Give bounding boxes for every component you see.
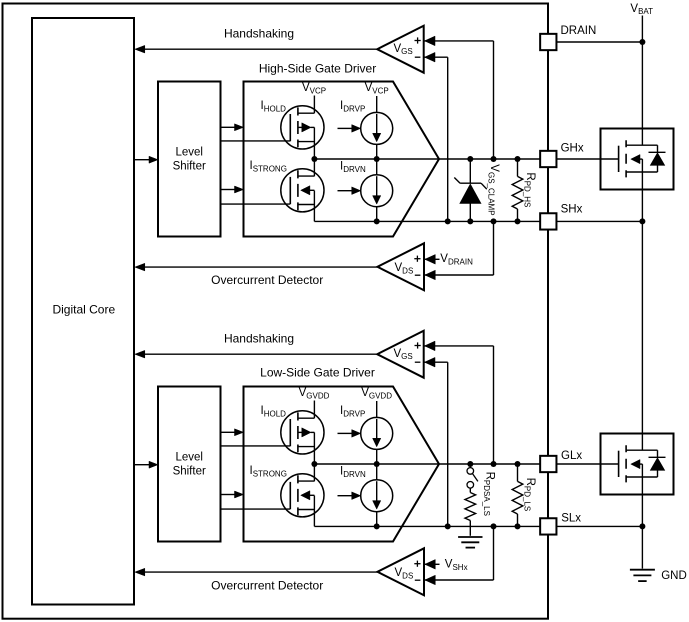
svg-text:Handshaking: Handshaking — [224, 27, 294, 41]
svg-text:Overcurrent Detector: Overcurrent Detector — [211, 273, 323, 287]
svg-text:GND: GND — [661, 570, 687, 582]
svg-text:GLx: GLx — [561, 450, 582, 462]
svg-text:Handshaking: Handshaking — [224, 332, 294, 346]
svg-text:Level: Level — [175, 146, 203, 158]
svg-text:Overcurrent Detector: Overcurrent Detector — [211, 578, 323, 592]
svg-text:Shifter: Shifter — [173, 160, 206, 172]
svg-text:Level: Level — [175, 451, 203, 463]
svg-text:DRAIN: DRAIN — [561, 25, 597, 37]
svg-text:Shifter: Shifter — [173, 465, 206, 477]
svg-text:Low-Side Gate Driver: Low-Side Gate Driver — [260, 365, 375, 379]
svg-text:High-Side Gate Driver: High-Side Gate Driver — [259, 62, 376, 76]
svg-text:SLx: SLx — [561, 513, 581, 525]
svg-text:GHx: GHx — [561, 143, 584, 155]
svg-text:SHx: SHx — [561, 204, 583, 216]
svg-text:Digital Core: Digital Core — [52, 303, 115, 317]
